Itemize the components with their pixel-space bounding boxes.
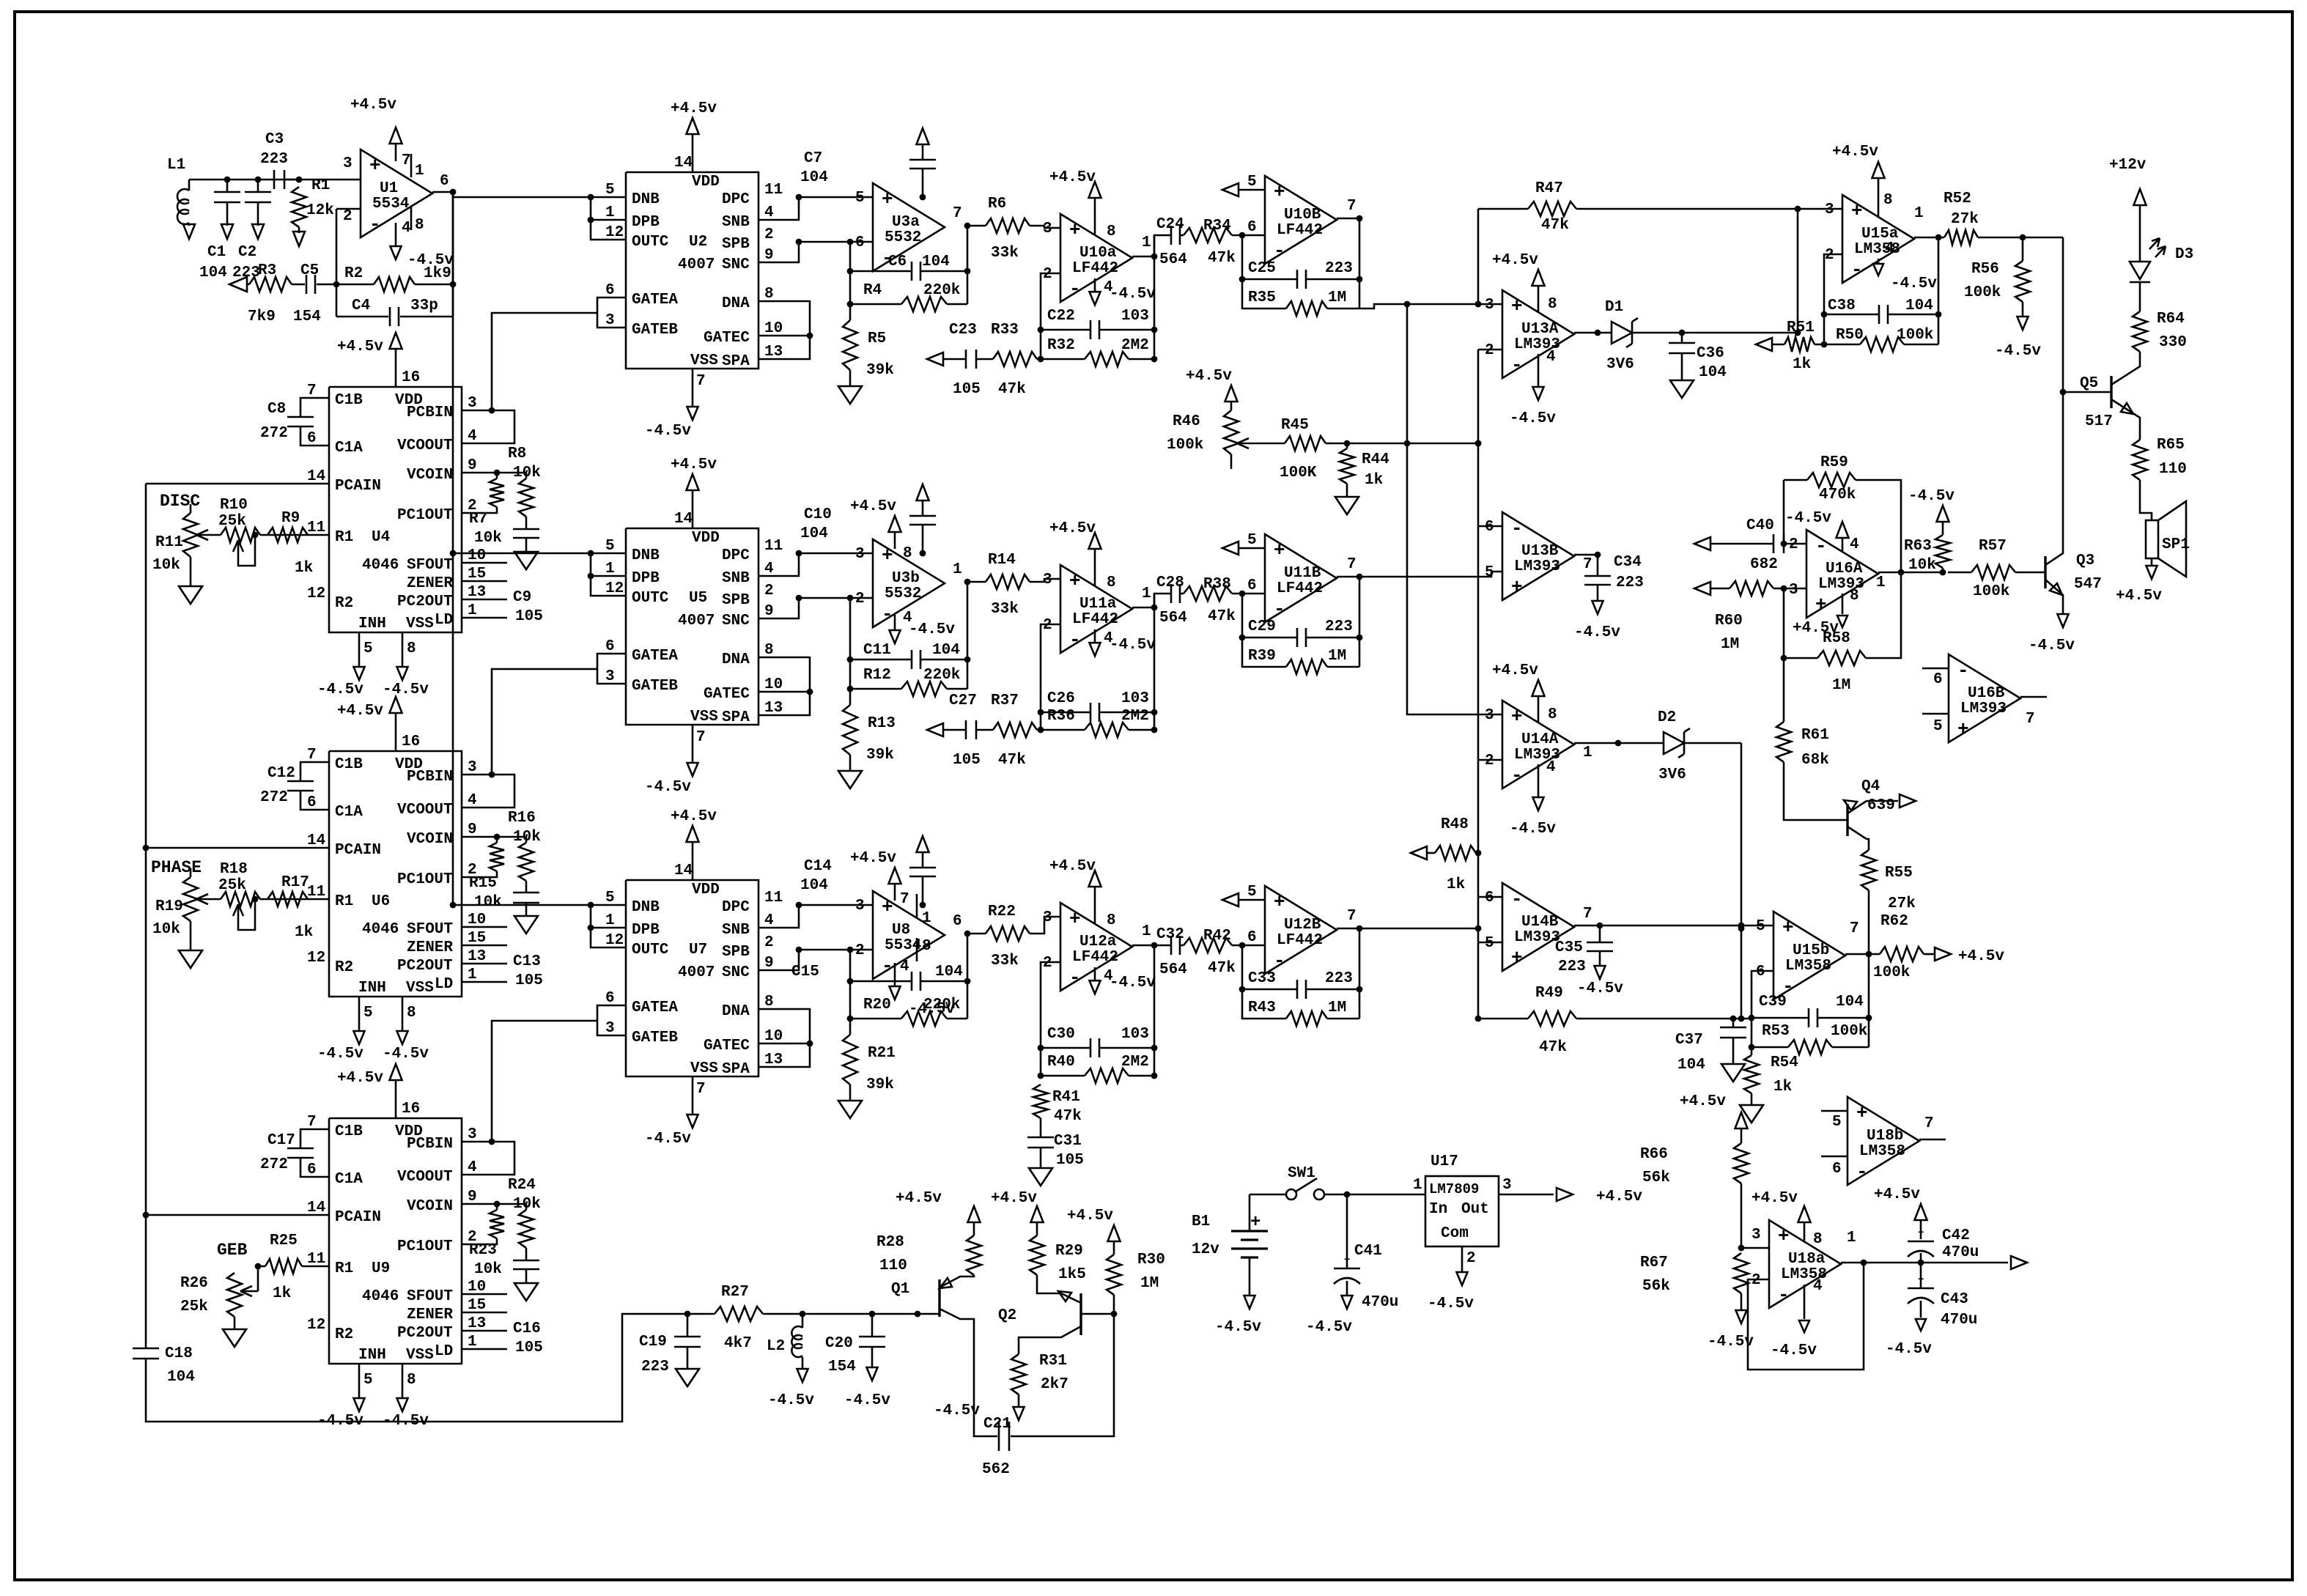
svg-text:1k: 1k: [295, 924, 313, 941]
svg-text:13: 13: [764, 1052, 783, 1068]
svg-text:LF442: LF442: [1072, 611, 1118, 628]
svg-text:C39: C39: [1759, 994, 1787, 1011]
svg-text:8: 8: [1548, 706, 1557, 723]
svg-text:2: 2: [764, 583, 774, 599]
svg-text:+4.5v: +4.5v: [1752, 1190, 1798, 1207]
svg-text:C30: C30: [1047, 1026, 1075, 1043]
svg-text:8: 8: [407, 1372, 416, 1389]
svg-text:6: 6: [307, 430, 317, 447]
svg-text:R13: R13: [868, 715, 896, 732]
svg-text:1k: 1k: [295, 560, 313, 577]
svg-text:D2: D2: [1658, 709, 1676, 726]
svg-text:DPB: DPB: [632, 570, 660, 587]
svg-text:3: 3: [468, 1126, 477, 1143]
svg-text:U3a: U3a: [892, 214, 920, 231]
svg-text:C5: C5: [300, 262, 319, 279]
svg-text:12: 12: [307, 950, 325, 967]
svg-text:SPB: SPB: [722, 944, 750, 961]
svg-text:10k: 10k: [1908, 557, 1936, 574]
svg-text:-4.5v: -4.5v: [317, 1413, 363, 1430]
svg-text:1: 1: [922, 910, 931, 927]
svg-text:+4.5v: +4.5v: [896, 1190, 942, 1207]
svg-text:VCOOUT: VCOOUT: [397, 437, 453, 454]
svg-text:+4.5v: +4.5v: [337, 339, 383, 355]
svg-text:68k: 68k: [1801, 752, 1829, 769]
svg-text:12: 12: [307, 585, 325, 602]
svg-text:10: 10: [764, 676, 783, 693]
svg-text:DPC: DPC: [722, 547, 750, 564]
svg-text:1: 1: [1142, 234, 1151, 251]
svg-text:R3: R3: [258, 262, 276, 279]
svg-text:R11: R11: [155, 534, 183, 551]
svg-text:1M: 1M: [1328, 648, 1346, 665]
svg-text:VDD: VDD: [692, 882, 720, 898]
svg-text:3: 3: [855, 898, 865, 915]
svg-text:12k: 12k: [306, 202, 334, 219]
svg-text:PHASE: PHASE: [151, 858, 202, 877]
svg-text:R45: R45: [1281, 417, 1309, 434]
svg-text:R28: R28: [876, 1234, 904, 1251]
svg-text:5: 5: [605, 538, 615, 555]
svg-text:6: 6: [440, 173, 449, 190]
svg-text:47k: 47k: [1208, 960, 1236, 977]
svg-text:100k: 100k: [1167, 437, 1203, 454]
svg-text:R35: R35: [1248, 289, 1276, 306]
svg-text:C20: C20: [825, 1335, 853, 1352]
svg-text:C34: C34: [1614, 554, 1642, 571]
svg-text:R31: R31: [1039, 1353, 1067, 1370]
svg-text:VDD: VDD: [692, 174, 720, 191]
svg-text:1M: 1M: [1140, 1275, 1159, 1292]
svg-text:1k: 1k: [1365, 472, 1383, 489]
svg-text:3: 3: [468, 759, 477, 776]
svg-text:-: -: [882, 603, 893, 625]
svg-text:C42: C42: [1942, 1227, 1970, 1244]
svg-text:27k: 27k: [1951, 211, 1979, 228]
svg-text:1: 1: [953, 561, 962, 578]
svg-text:R1: R1: [335, 529, 353, 546]
svg-text:3: 3: [605, 312, 615, 329]
svg-text:25k: 25k: [180, 1298, 208, 1315]
svg-text:R50: R50: [1836, 327, 1864, 344]
svg-text:R43: R43: [1248, 1000, 1276, 1016]
svg-text:10k: 10k: [152, 921, 180, 938]
svg-text:Q2: Q2: [998, 1307, 1016, 1324]
svg-text:4: 4: [468, 428, 477, 445]
svg-text:10k: 10k: [513, 465, 541, 481]
svg-text:-: -: [1274, 240, 1285, 262]
svg-text:U14B: U14B: [1521, 914, 1559, 931]
svg-text:8: 8: [1883, 192, 1893, 209]
svg-text:4: 4: [900, 958, 909, 975]
svg-text:R53: R53: [1762, 1023, 1790, 1040]
svg-text:8: 8: [415, 217, 424, 234]
svg-text:7: 7: [696, 729, 706, 746]
svg-text:U2: U2: [689, 234, 707, 251]
svg-text:R9: R9: [281, 510, 300, 527]
svg-text:12: 12: [605, 224, 624, 241]
svg-text:-4.5v: -4.5v: [317, 1046, 363, 1063]
svg-text:R67: R67: [1640, 1255, 1668, 1271]
svg-text:DNA: DNA: [722, 295, 750, 312]
svg-text:+4.5v: +4.5v: [1049, 858, 1096, 875]
svg-text:4: 4: [1813, 1278, 1823, 1295]
svg-text:DPB: DPB: [632, 922, 660, 939]
svg-text:PCBIN: PCBIN: [407, 404, 453, 421]
svg-text:GATEC: GATEC: [704, 686, 750, 703]
svg-text:272: 272: [260, 789, 288, 806]
svg-text:104: 104: [935, 964, 963, 980]
svg-text:U16B: U16B: [1968, 685, 2005, 702]
svg-text:2k7: 2k7: [1041, 1376, 1068, 1393]
svg-text:+: +: [1250, 1213, 1260, 1233]
svg-text:R29: R29: [1055, 1243, 1083, 1260]
svg-text:C17: C17: [267, 1132, 295, 1149]
svg-text:104: 104: [1836, 994, 1864, 1011]
svg-text:2: 2: [855, 591, 865, 607]
svg-text:2: 2: [343, 208, 352, 225]
svg-text:7: 7: [1347, 198, 1356, 215]
svg-text:LM393: LM393: [1514, 558, 1560, 575]
svg-text:5: 5: [363, 1005, 373, 1021]
svg-text:6: 6: [1832, 1161, 1842, 1178]
svg-text:1M: 1M: [1832, 677, 1850, 694]
svg-text:56k: 56k: [1642, 1170, 1670, 1186]
svg-text:1: 1: [415, 163, 424, 180]
svg-text:100k: 100k: [1897, 327, 1933, 344]
svg-text:U3b: U3b: [892, 570, 920, 587]
svg-text:U11a: U11a: [1079, 596, 1117, 613]
svg-text:105: 105: [953, 752, 981, 769]
svg-text:SFOUT: SFOUT: [407, 557, 453, 574]
svg-text:7: 7: [402, 152, 411, 169]
svg-text:-4.5v: -4.5v: [2029, 638, 2075, 654]
svg-text:+4.5v: +4.5v: [671, 457, 717, 473]
svg-text:105: 105: [515, 608, 543, 625]
svg-text:103: 103: [1121, 308, 1149, 325]
svg-text:LM393: LM393: [1960, 701, 2007, 717]
svg-text:5: 5: [1247, 884, 1257, 901]
svg-text:-4.5v: -4.5v: [844, 1392, 890, 1409]
svg-text:C11: C11: [863, 642, 891, 659]
svg-text:B1: B1: [1192, 1213, 1210, 1230]
svg-text:R54: R54: [1771, 1054, 1798, 1071]
svg-text:C35: C35: [1555, 939, 1583, 956]
svg-text:U7: U7: [689, 942, 707, 958]
svg-text:3: 3: [1485, 297, 1494, 314]
svg-text:+4.5v: +4.5v: [1049, 520, 1096, 537]
svg-text:110: 110: [2159, 461, 2187, 478]
svg-text:1: 1: [468, 1334, 477, 1351]
svg-text:5: 5: [605, 890, 615, 906]
svg-text:33k: 33k: [991, 601, 1019, 618]
svg-text:3: 3: [1485, 707, 1494, 724]
svg-text:R56: R56: [1971, 261, 1999, 278]
svg-text:PCAIN: PCAIN: [335, 478, 381, 495]
svg-text:Q3: Q3: [2076, 553, 2094, 569]
svg-text:SNC: SNC: [722, 613, 750, 629]
svg-text:9: 9: [468, 457, 477, 474]
svg-text:47k: 47k: [998, 752, 1026, 769]
svg-text:R63: R63: [1904, 538, 1932, 555]
svg-text:9: 9: [468, 821, 477, 838]
svg-text:VSS: VSS: [406, 980, 434, 997]
svg-text:R62: R62: [1880, 913, 1908, 930]
svg-text:SPA: SPA: [722, 353, 750, 370]
svg-text:+: +: [1511, 706, 1523, 728]
svg-text:R37: R37: [991, 692, 1019, 709]
svg-text:-: -: [1069, 278, 1081, 300]
svg-text:6: 6: [1485, 519, 1494, 536]
svg-text:-: -: [1069, 967, 1081, 989]
svg-text:9: 9: [468, 1189, 477, 1205]
svg-text:5: 5: [363, 640, 373, 657]
svg-text:1k9: 1k9: [424, 265, 451, 282]
svg-text:VCOOUT: VCOOUT: [397, 1169, 453, 1186]
svg-text:+4.5v: +4.5v: [1186, 368, 1232, 385]
svg-text:R24: R24: [508, 1177, 536, 1194]
svg-text:47k: 47k: [998, 381, 1026, 398]
svg-text:D3: D3: [2175, 246, 2193, 263]
svg-text:SW1: SW1: [1288, 1165, 1315, 1182]
svg-text:5: 5: [605, 182, 615, 199]
svg-text:SPA: SPA: [722, 709, 750, 726]
svg-text:39k: 39k: [866, 362, 894, 379]
svg-text:GATEC: GATEC: [704, 1038, 750, 1054]
svg-text:5: 5: [1247, 174, 1257, 191]
svg-text:ZENER: ZENER: [407, 939, 453, 956]
svg-text:-: -: [1511, 888, 1523, 910]
svg-text:16: 16: [402, 1101, 420, 1117]
svg-text:DPB: DPB: [632, 214, 660, 231]
svg-text:104: 104: [800, 169, 828, 186]
svg-text:R15: R15: [469, 875, 497, 892]
svg-text:12: 12: [307, 1317, 325, 1334]
svg-text:-4.5v: -4.5v: [1891, 276, 1937, 292]
svg-text:U13A: U13A: [1521, 321, 1559, 338]
svg-text:+4.5v: +4.5v: [337, 1070, 383, 1087]
svg-text:C16: C16: [513, 1320, 541, 1337]
svg-text:220k: 220k: [923, 667, 960, 684]
svg-text:PC2OUT: PC2OUT: [397, 958, 453, 975]
svg-text:4: 4: [468, 1159, 477, 1176]
svg-text:12v: 12v: [1192, 1241, 1219, 1258]
svg-text:-4.5v: -4.5v: [1306, 1319, 1352, 1336]
svg-text:R32: R32: [1047, 337, 1075, 354]
svg-text:C1B: C1B: [335, 1123, 363, 1140]
svg-text:3: 3: [1502, 1177, 1512, 1194]
svg-text:+: +: [1274, 539, 1285, 561]
svg-text:U14A: U14A: [1521, 731, 1559, 748]
svg-text:10k: 10k: [513, 1196, 541, 1213]
svg-text:GATEB: GATEB: [632, 678, 678, 695]
svg-text:+4.5v: +4.5v: [671, 100, 717, 117]
svg-text:SNB: SNB: [722, 214, 750, 231]
svg-text:1: 1: [468, 602, 477, 619]
svg-text:R22: R22: [988, 904, 1016, 920]
svg-text:+12v: +12v: [2109, 157, 2147, 174]
svg-text:VCOIN: VCOIN: [407, 467, 453, 484]
svg-text:+4.5v: +4.5v: [1049, 169, 1096, 186]
svg-text:-: -: [1778, 1284, 1790, 1306]
svg-text:R1: R1: [335, 1260, 353, 1277]
svg-text:11: 11: [764, 182, 783, 199]
svg-text:C25: C25: [1248, 260, 1276, 277]
svg-text:4: 4: [764, 204, 774, 221]
svg-text:14: 14: [674, 862, 693, 879]
svg-text:104: 104: [167, 1369, 195, 1386]
svg-text:LD: LD: [435, 976, 453, 993]
svg-text:27k: 27k: [1888, 895, 1916, 912]
svg-text:1: 1: [1142, 585, 1151, 602]
svg-text:R16: R16: [508, 810, 536, 827]
svg-text:C8: C8: [267, 401, 286, 418]
svg-text:4: 4: [402, 220, 411, 237]
svg-text:8: 8: [1548, 296, 1557, 313]
svg-text:3: 3: [605, 1020, 615, 1037]
svg-text:2: 2: [764, 934, 774, 951]
svg-text:1: 1: [1847, 1230, 1856, 1246]
svg-text:+: +: [1344, 1255, 1350, 1266]
svg-text:C1B: C1B: [335, 756, 363, 773]
svg-text:-4.5v: -4.5v: [909, 621, 955, 638]
svg-text:R57: R57: [1979, 538, 2007, 555]
svg-text:10: 10: [764, 320, 783, 337]
svg-text:8: 8: [1850, 588, 1859, 605]
svg-text:U11B: U11B: [1284, 565, 1321, 582]
svg-text:GATEB: GATEB: [632, 322, 678, 339]
svg-text:4046: 4046: [362, 921, 399, 938]
svg-text:-: -: [1856, 1161, 1868, 1183]
svg-text:47k: 47k: [1208, 250, 1236, 267]
svg-text:R26: R26: [180, 1275, 208, 1292]
svg-text:SPA: SPA: [722, 1061, 750, 1078]
svg-text:SP1: SP1: [2162, 536, 2190, 553]
svg-text:C1A: C1A: [335, 1171, 363, 1188]
svg-text:1k: 1k: [1447, 876, 1465, 893]
svg-text:U6: U6: [372, 893, 390, 910]
svg-text:7: 7: [1850, 920, 1859, 937]
svg-text:OUTC: OUTC: [632, 590, 669, 607]
svg-text:SFOUT: SFOUT: [407, 921, 453, 938]
svg-text:3V6: 3V6: [1606, 356, 1634, 373]
svg-text:10: 10: [468, 912, 486, 928]
svg-text:-4.5v: -4.5v: [1886, 1341, 1932, 1358]
svg-text:2: 2: [1789, 536, 1798, 553]
svg-text:3: 3: [1043, 221, 1052, 237]
svg-text:+: +: [1782, 917, 1794, 939]
svg-text:5534: 5534: [885, 937, 921, 954]
svg-text:7: 7: [307, 1114, 317, 1131]
svg-text:4: 4: [1546, 759, 1556, 776]
svg-text:4007: 4007: [678, 613, 715, 629]
svg-text:223: 223: [641, 1359, 669, 1375]
svg-text:-4.5v: -4.5v: [1574, 624, 1620, 641]
svg-text:+: +: [369, 155, 381, 177]
svg-text:C19: C19: [639, 1334, 667, 1351]
svg-text:47k: 47k: [1208, 608, 1236, 625]
svg-text:R42: R42: [1203, 928, 1231, 945]
svg-text:4k7: 4k7: [724, 1335, 752, 1352]
svg-text:1k: 1k: [273, 1285, 291, 1302]
svg-text:R23: R23: [469, 1242, 497, 1259]
svg-text:R39: R39: [1248, 648, 1276, 665]
svg-text:8: 8: [1107, 912, 1116, 929]
svg-text:C1: C1: [207, 244, 226, 261]
svg-text:-4.5v: -4.5v: [1708, 1334, 1754, 1351]
svg-text:6: 6: [307, 1161, 317, 1178]
svg-text:-4.5v: -4.5v: [1510, 410, 1556, 427]
svg-text:-: -: [1274, 950, 1285, 972]
svg-text:+: +: [1274, 181, 1285, 203]
svg-text:R2: R2: [335, 595, 353, 612]
svg-text:VCOIN: VCOIN: [407, 831, 453, 848]
svg-text:R44: R44: [1362, 451, 1389, 468]
svg-text:-: -: [1069, 629, 1081, 651]
svg-text:C26: C26: [1047, 690, 1075, 707]
svg-text:6: 6: [307, 794, 317, 811]
svg-text:R41: R41: [1052, 1089, 1080, 1106]
svg-text:470u: 470u: [1941, 1312, 1977, 1329]
svg-text:154: 154: [293, 309, 321, 325]
svg-text:10k: 10k: [152, 557, 180, 574]
svg-text:10: 10: [764, 1028, 783, 1045]
svg-text:+4.5v: +4.5v: [1832, 144, 1878, 160]
svg-text:VSS: VSS: [690, 1060, 718, 1077]
svg-text:R65: R65: [2157, 437, 2185, 454]
svg-text:-4.5v: -4.5v: [1510, 821, 1556, 838]
svg-text:6: 6: [953, 913, 962, 930]
svg-text:4: 4: [1885, 240, 1894, 257]
svg-text:15: 15: [468, 930, 486, 947]
svg-text:-4.5v: -4.5v: [1785, 510, 1831, 527]
svg-text:1M: 1M: [1721, 636, 1739, 653]
svg-text:U18b: U18b: [1867, 1128, 1903, 1145]
svg-text:16: 16: [402, 369, 420, 386]
svg-text:105: 105: [1056, 1152, 1084, 1169]
svg-text:25k: 25k: [218, 513, 246, 530]
svg-text:R46: R46: [1173, 413, 1200, 430]
svg-text:C12: C12: [267, 765, 295, 782]
svg-text:C1A: C1A: [335, 440, 363, 457]
svg-text:104: 104: [922, 254, 950, 270]
svg-text:272: 272: [260, 1156, 288, 1173]
svg-text:5532: 5532: [885, 229, 921, 246]
svg-text:12: 12: [605, 932, 624, 949]
svg-text:47k: 47k: [1539, 1039, 1567, 1056]
svg-text:6: 6: [1247, 577, 1257, 594]
svg-text:U17: U17: [1431, 1153, 1458, 1170]
svg-text:DNB: DNB: [632, 191, 660, 208]
svg-text:39k: 39k: [866, 1076, 894, 1093]
svg-text:-4.5v: -4.5v: [934, 1403, 980, 1419]
svg-text:4: 4: [468, 792, 477, 809]
svg-text:6: 6: [605, 990, 615, 1007]
svg-text:-: -: [1274, 598, 1285, 620]
svg-text:+4.5v: +4.5v: [2116, 588, 2162, 605]
svg-text:C1A: C1A: [335, 804, 363, 821]
svg-text:1: 1: [1914, 205, 1924, 222]
svg-text:+: +: [1957, 718, 1969, 740]
svg-text:16: 16: [402, 734, 420, 750]
svg-text:8: 8: [1107, 223, 1116, 240]
svg-text:R51: R51: [1787, 319, 1815, 336]
svg-text:33p: 33p: [410, 298, 438, 314]
svg-text:1: 1: [605, 204, 615, 221]
svg-text:PC1OUT: PC1OUT: [397, 871, 453, 888]
svg-text:U15b: U15b: [1793, 942, 1829, 959]
svg-text:C2: C2: [238, 244, 256, 261]
